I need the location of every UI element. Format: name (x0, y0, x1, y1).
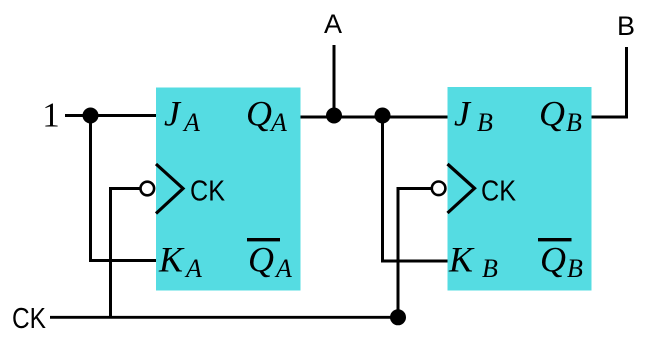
inversion bubble U1 clock (141, 182, 155, 196)
node A junction dot (326, 108, 342, 124)
svg-text:A: A (269, 108, 287, 137)
flip-flop U1 body (156, 88, 301, 291)
wire QA-to-JB (301, 116, 448, 119)
svg-text:Q: Q (539, 94, 565, 134)
clock chevron U2 (448, 164, 475, 213)
wire QA-to-KB (383, 116, 448, 262)
svg-text:K: K (448, 240, 475, 280)
node 1 junction dot (83, 108, 99, 124)
pin label JA (164, 94, 200, 138)
svg-text:J: J (164, 94, 182, 134)
flip-flop U2 body (448, 87, 592, 291)
svg-text:B: B (617, 11, 635, 41)
pin label QB-bar (538, 238, 583, 283)
svg-text:J: J (454, 94, 472, 134)
wire 1-to-JA (65, 114, 156, 117)
pin label QA-bar (247, 238, 292, 283)
pin label JB (454, 94, 493, 138)
svg-text:A: A (184, 254, 202, 283)
svg-text:B: B (567, 254, 583, 283)
svg-text:CK: CK (481, 176, 517, 208)
svg-text:CK: CK (12, 303, 47, 335)
svg-text:K: K (158, 240, 185, 280)
wire QB-to-B (592, 47, 627, 117)
svg-text:1: 1 (42, 96, 60, 135)
svg-text:Q: Q (248, 240, 274, 280)
pin label QA (246, 94, 287, 138)
svg-text:A: A (182, 108, 200, 137)
wire CK bus (50, 316, 398, 319)
wire CK-bus-to-U1-clock (111, 189, 141, 319)
svg-text:Q: Q (540, 240, 566, 280)
wire junction-down-to-KA (91, 116, 157, 261)
svg-text:B: B (566, 108, 582, 137)
node QA-KB junction dot (375, 108, 391, 124)
svg-text:A: A (274, 254, 292, 283)
inversion bubble U2 clock (432, 182, 446, 196)
pin label KB (448, 240, 498, 284)
svg-text:B: B (482, 254, 498, 283)
svg-text:CK: CK (190, 176, 226, 208)
clock chevron U1 (156, 164, 183, 214)
wire CK-bus-to-U2-clock (398, 189, 432, 319)
svg-text:B: B (477, 108, 493, 137)
pin label QB (539, 94, 582, 138)
svg-text:A: A (324, 9, 342, 39)
node CK junction dot (390, 309, 406, 325)
svg-text:Q: Q (246, 94, 272, 134)
wire node-A-drop (333, 45, 336, 117)
pin label KA (158, 240, 202, 284)
